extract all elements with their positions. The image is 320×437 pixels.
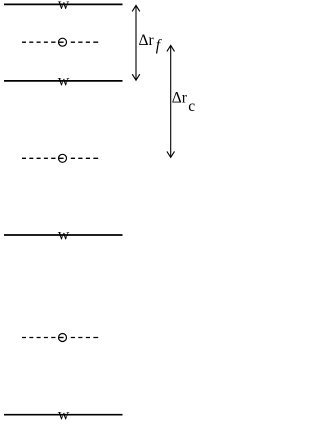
svg-text:w: w <box>58 73 70 90</box>
dashed level d2 right dashes <box>71 157 98 159</box>
dashed level d3 left dashes <box>22 337 56 339</box>
svg-text:c: c <box>188 98 195 115</box>
arrow Delta r_c (double headed, between d1 and d2) <box>167 45 175 157</box>
bar inside circle d3 <box>58 337 63 339</box>
level line w4 (bottom solid) <box>4 414 123 416</box>
svg-text:Δr: Δr <box>139 32 155 49</box>
arrow Delta r_f (double headed, between w1 and w2) <box>132 5 140 80</box>
svg-text:w: w <box>58 227 70 244</box>
svg-text:w: w <box>58 0 70 13</box>
svg-text:Δr: Δr <box>172 90 188 107</box>
level line w2 (second solid) <box>4 80 123 82</box>
svg-text:w: w <box>58 406 70 423</box>
bar inside circle d1 <box>58 41 63 43</box>
bar inside circle d2 <box>58 157 63 159</box>
hole circle on d2 <box>59 154 67 162</box>
level line w3 (third solid) <box>4 234 123 236</box>
dashed level d1 right dashes <box>71 41 98 43</box>
dashed level d1 left dashes <box>22 41 56 43</box>
hole circle on d3 <box>59 334 67 342</box>
dashed level d3 right dashes <box>71 337 98 339</box>
hole circle on d1 <box>59 38 67 46</box>
dashed level d2 left dashes <box>22 157 56 159</box>
level line w1 (top solid) <box>4 3 123 5</box>
